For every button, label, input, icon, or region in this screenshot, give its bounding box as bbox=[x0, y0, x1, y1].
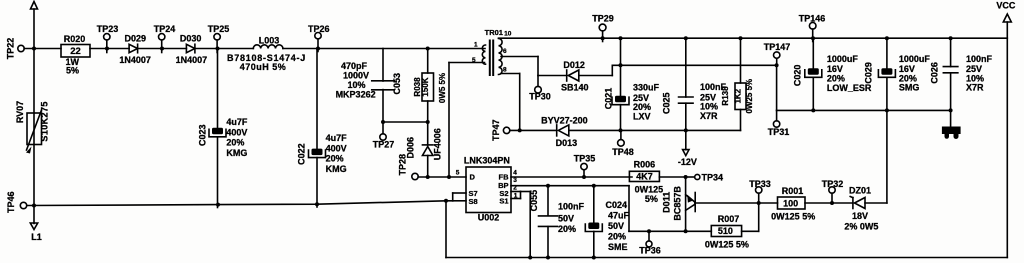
svg-text:16V: 16V bbox=[899, 64, 915, 74]
svg-text:1N4007: 1N4007 bbox=[176, 55, 208, 65]
svg-text:10: 10 bbox=[504, 31, 512, 38]
svg-text:400V: 400V bbox=[226, 127, 247, 137]
wire: DZ01 up to gnd rail bbox=[865, 110, 887, 203]
svg-text:TP146: TP146 bbox=[799, 13, 826, 23]
svg-text:S8: S8 bbox=[469, 197, 478, 206]
wire: R007 to TP33 node bbox=[742, 203, 759, 231]
svg-text:20%: 20% bbox=[827, 73, 845, 83]
svg-text:D011: D011 bbox=[662, 192, 672, 213]
svg-text:TP147: TP147 bbox=[764, 42, 791, 52]
wire: R001 to TP32 bbox=[805, 201, 834, 205]
svg-text:22: 22 bbox=[70, 46, 81, 57]
svg-text:L003: L003 bbox=[259, 36, 280, 46]
diode D030 1N4007 bbox=[176, 34, 208, 66]
svg-text:1: 1 bbox=[474, 41, 478, 48]
svg-text:4u7F: 4u7F bbox=[226, 117, 248, 127]
test point TP24 bbox=[154, 24, 176, 53]
svg-text:KMG: KMG bbox=[326, 164, 347, 174]
ground symbol bbox=[942, 110, 961, 139]
pin 4 label bbox=[513, 170, 517, 177]
svg-text:C053: C053 bbox=[392, 73, 402, 95]
test point TP32 bbox=[822, 179, 844, 203]
svg-text:S1: S1 bbox=[499, 197, 508, 206]
svg-text:C022: C022 bbox=[297, 143, 307, 165]
svg-text:BYV27-200: BYV27-200 bbox=[541, 116, 588, 126]
wire: pin6 tap to D012 bbox=[538, 75, 567, 77]
test point TP30 bbox=[529, 76, 551, 102]
svg-text:TP36: TP36 bbox=[639, 246, 661, 256]
wire: collector-emitter vertical bbox=[684, 177, 688, 233]
transformer TR01 secondary winding bbox=[499, 31, 512, 75]
pin 1 label bbox=[514, 193, 518, 200]
svg-text:50V: 50V bbox=[608, 221, 624, 231]
svg-text:100: 100 bbox=[783, 198, 798, 208]
zener diode DZ01 18V bbox=[844, 185, 878, 231]
svg-text:TP23: TP23 bbox=[97, 24, 119, 34]
svg-text:DZ01: DZ01 bbox=[849, 185, 871, 195]
capacitor C023 4u7F bbox=[197, 117, 248, 208]
capacitor C020 1000uF LOW_ESR bbox=[793, 38, 872, 110]
wire: C053 to TP27 and to R038 chain bbox=[381, 90, 428, 134]
svg-text:470pF: 470pF bbox=[341, 61, 368, 71]
svg-text:D029: D029 bbox=[125, 34, 147, 44]
test point TP47 bbox=[491, 119, 510, 141]
wire: drain node to IC pin D bbox=[418, 175, 466, 179]
svg-text:150K: 150K bbox=[421, 77, 430, 96]
svg-text:TP47: TP47 bbox=[491, 119, 501, 141]
wire: TP25 node down to C023 bbox=[217, 49, 219, 129]
svg-text:VCC: VCC bbox=[996, 0, 1016, 10]
svg-text:UF4006: UF4006 bbox=[432, 128, 442, 160]
svg-text:18V: 18V bbox=[852, 211, 868, 221]
svg-text:5: 5 bbox=[456, 170, 460, 177]
svg-text:SB140: SB140 bbox=[561, 82, 589, 92]
wire: BP pin to C055 and C024 bbox=[511, 184, 629, 188]
resistor R006 4K7 bbox=[629, 160, 663, 204]
op-amp U002 LNK304PN body bbox=[464, 156, 511, 223]
svg-text:20%: 20% bbox=[608, 231, 626, 241]
svg-text:TP27: TP27 bbox=[373, 140, 395, 150]
svg-text:5: 5 bbox=[472, 57, 476, 64]
wire: D006 to drain node bbox=[427, 156, 429, 178]
svg-text:X7R: X7R bbox=[700, 111, 718, 121]
test point TP27 bbox=[373, 134, 395, 150]
svg-text:C025: C025 bbox=[662, 92, 672, 114]
resistor R138 1K2 bbox=[721, 38, 754, 130]
wire: input stub from TP22 to junction bbox=[24, 48, 61, 50]
svg-text:TP22: TP22 bbox=[6, 38, 16, 60]
wire: FB pin to R006 bbox=[511, 175, 632, 179]
capacitor C022 4u7F bbox=[297, 133, 348, 207]
capacitor C026 100nF X7R bbox=[930, 38, 993, 110]
resistor R007 510 bbox=[705, 214, 749, 250]
capacitor C021 330uF LXV bbox=[604, 38, 660, 130]
svg-text:3: 3 bbox=[513, 177, 517, 184]
svg-text:4K7: 4K7 bbox=[636, 171, 653, 181]
svg-text:20%: 20% bbox=[326, 154, 344, 164]
svg-text:MKP3262: MKP3262 bbox=[336, 90, 376, 100]
svg-text:TP26: TP26 bbox=[308, 24, 330, 34]
svg-text:TR01: TR01 bbox=[485, 28, 503, 37]
wire: D029 to D030 bbox=[139, 47, 186, 51]
capacitor C053 470pF MKP bbox=[336, 61, 402, 100]
diode D006 UF4006 bbox=[406, 128, 443, 160]
pin 2 label bbox=[513, 184, 517, 191]
test point TP35 bbox=[574, 154, 596, 177]
net flag VCC bbox=[996, 0, 1016, 22]
svg-text:8: 8 bbox=[503, 66, 507, 73]
svg-text:510: 510 bbox=[718, 226, 733, 236]
capacitor C029 1000uF SMG bbox=[864, 38, 931, 110]
test point TP48 bbox=[612, 130, 634, 157]
svg-text:0W125 5%: 0W125 5% bbox=[705, 240, 749, 250]
inductor L003 bbox=[227, 36, 306, 72]
resistor R001 100 bbox=[759, 186, 816, 221]
svg-text:1K2: 1K2 bbox=[734, 88, 743, 103]
svg-text:U002: U002 bbox=[478, 212, 500, 222]
pin 5 label bbox=[456, 170, 460, 177]
svg-text:-12V: -12V bbox=[678, 157, 697, 167]
test point TP31 bbox=[768, 110, 790, 137]
wire: R020 to D029 bbox=[90, 47, 129, 51]
svg-text:TP35: TP35 bbox=[574, 154, 596, 164]
svg-text:TP28: TP28 bbox=[398, 154, 408, 176]
wire: bottom return rail bbox=[446, 201, 1007, 260]
wire: R038 to D006 bbox=[426, 101, 430, 145]
net flag -12V bbox=[678, 130, 697, 167]
wire: IC source pins S7 S8 bracket bbox=[453, 193, 466, 201]
svg-text:D012: D012 bbox=[563, 60, 585, 70]
svg-text:1000uF: 1000uF bbox=[899, 54, 931, 64]
test point TP26 bbox=[308, 24, 330, 52]
wire: emitter node wire bbox=[629, 186, 711, 234]
svg-text:4: 4 bbox=[513, 170, 517, 177]
test point TP33 bbox=[749, 179, 771, 203]
resistor R020 bbox=[61, 34, 90, 75]
capacitor C055 100nF bbox=[529, 186, 585, 258]
wire: secondary pin10 to VCC rail bbox=[499, 36, 1008, 40]
wire: secondary gnd rail bbox=[777, 108, 953, 112]
svg-text:5%: 5% bbox=[66, 65, 79, 75]
svg-text:100nF: 100nF bbox=[558, 202, 585, 212]
svg-text:R006: R006 bbox=[634, 160, 656, 170]
wire: secondary pin 6 tap bbox=[501, 57, 538, 76]
test point TP36 bbox=[639, 231, 661, 255]
capacitor C025 100nF X7R bbox=[662, 38, 727, 130]
svg-text:TP34: TP34 bbox=[702, 173, 724, 183]
svg-text:4u7F: 4u7F bbox=[326, 133, 348, 143]
wire: primary bottom bus bbox=[27, 199, 453, 207]
resistor R038 150K bbox=[413, 49, 447, 104]
svg-text:TP30: TP30 bbox=[529, 92, 551, 102]
transistor Q D011 BC857B bbox=[662, 186, 696, 221]
svg-text:L1: L1 bbox=[31, 232, 42, 242]
test point TP34 bbox=[686, 173, 723, 183]
svg-text:TP46: TP46 bbox=[6, 192, 16, 214]
svg-text:C029: C029 bbox=[864, 62, 874, 84]
svg-text:TP24: TP24 bbox=[154, 24, 176, 34]
transformer TR01 core bbox=[485, 28, 503, 76]
svg-text:LXV: LXV bbox=[633, 111, 651, 121]
svg-text:R138: R138 bbox=[721, 86, 730, 106]
svg-text:20%: 20% bbox=[558, 224, 576, 234]
svg-text:5%: 5% bbox=[645, 194, 658, 204]
wire: D030 to L003 bbox=[196, 47, 253, 51]
test point TP25 bbox=[208, 24, 230, 53]
wire: TP26 node down to C022 bbox=[316, 49, 318, 149]
svg-text:SME: SME bbox=[608, 242, 628, 252]
svg-text:0W5 5%: 0W5 5% bbox=[438, 73, 447, 103]
svg-text:C026: C026 bbox=[930, 62, 940, 84]
svg-text:16V: 16V bbox=[827, 64, 843, 74]
test point TP146 bbox=[799, 13, 826, 41]
wire: top wire down to C053 bbox=[382, 49, 384, 82]
svg-text:0W25 5%: 0W25 5% bbox=[745, 79, 754, 114]
varistor RV07 bbox=[15, 101, 49, 154]
svg-text:TP29: TP29 bbox=[592, 13, 614, 23]
svg-text:LNK304PN: LNK304PN bbox=[464, 156, 510, 166]
svg-text:C020: C020 bbox=[793, 65, 803, 87]
wire: S1 S2 pins to return rail bbox=[511, 192, 530, 258]
test point TP46 bbox=[6, 192, 27, 214]
diode D012 SB140 bbox=[561, 60, 589, 92]
svg-text:50V: 50V bbox=[558, 214, 574, 224]
svg-text:X7R: X7R bbox=[966, 83, 984, 93]
svg-text:TP33: TP33 bbox=[749, 179, 771, 189]
svg-text:RV07: RV07 bbox=[15, 101, 25, 123]
wire: vertical input line L bbox=[32, 9, 36, 224]
svg-text:C023: C023 bbox=[197, 125, 207, 147]
svg-text:D030: D030 bbox=[180, 34, 202, 44]
svg-text:C024: C024 bbox=[606, 200, 628, 210]
pin 3 label bbox=[513, 177, 517, 184]
svg-text:R038: R038 bbox=[413, 77, 422, 97]
svg-text:470uH 5%: 470uH 5% bbox=[240, 62, 287, 72]
wire: secondary pin 8 tap bbox=[501, 74, 522, 133]
svg-text:TP32: TP32 bbox=[822, 179, 844, 189]
wire: TP147 node down to gnd rail bbox=[776, 65, 778, 110]
node arrow: line input top bbox=[31, 2, 38, 10]
svg-text:BC857B: BC857B bbox=[672, 186, 682, 221]
svg-text:R020: R020 bbox=[64, 34, 86, 44]
svg-text:400V: 400V bbox=[326, 143, 347, 153]
wire: -12V rail bbox=[569, 128, 741, 132]
svg-text:C021: C021 bbox=[604, 88, 614, 110]
wire: right edge VCC vertical bbox=[1006, 22, 1008, 258]
svg-text:0W125 5%: 0W125 5% bbox=[771, 211, 815, 221]
test point TP22 bbox=[6, 38, 25, 60]
svg-text:TP31: TP31 bbox=[768, 127, 790, 137]
svg-text:2% 0W5: 2% 0W5 bbox=[844, 222, 878, 232]
svg-text:D: D bbox=[470, 173, 476, 182]
wire: transformer pin 5 to drain node bbox=[449, 63, 485, 178]
test point TP28 bbox=[398, 154, 419, 180]
svg-text:SMG: SMG bbox=[899, 83, 920, 93]
svg-text:KMG: KMG bbox=[226, 148, 247, 158]
wire: base to TP33 node bbox=[695, 201, 761, 205]
svg-text:1N4007: 1N4007 bbox=[119, 55, 151, 65]
svg-text:D013: D013 bbox=[556, 138, 578, 148]
wire: TP32 to DZ01 bbox=[832, 202, 853, 204]
svg-text:1000uF: 1000uF bbox=[827, 54, 859, 64]
test point TP29 bbox=[592, 13, 614, 41]
svg-text:100nF: 100nF bbox=[966, 54, 993, 64]
wire: L003 to transformer pin 1 bbox=[283, 47, 485, 51]
wire: R006 to -12V node bbox=[659, 175, 687, 179]
svg-text:TP48: TP48 bbox=[612, 147, 634, 157]
capacitor C024 47uF SME bbox=[585, 186, 629, 258]
svg-text:6: 6 bbox=[503, 48, 507, 55]
diode D013 BYV27-200 bbox=[541, 116, 588, 149]
svg-text:TP25: TP25 bbox=[208, 24, 230, 34]
test point TP147 bbox=[764, 42, 791, 65]
svg-text:R007: R007 bbox=[718, 214, 740, 224]
transformer TR01 primary winding bbox=[472, 41, 486, 64]
svg-text:LOW_ESR: LOW_ESR bbox=[827, 83, 872, 93]
wire: TP47 to D013 bbox=[510, 129, 557, 131]
svg-text:330uF: 330uF bbox=[633, 83, 660, 93]
wire: D012 to VCC net step bbox=[579, 63, 779, 75]
svg-text:R001: R001 bbox=[782, 186, 804, 196]
svg-text:10%: 10% bbox=[347, 80, 365, 90]
arrow L1 (line output down) bbox=[30, 223, 41, 242]
svg-text:20%: 20% bbox=[226, 138, 244, 148]
svg-text:S10K275: S10K275 bbox=[40, 101, 50, 141]
svg-text:25V: 25V bbox=[966, 64, 982, 74]
test point TP23 bbox=[97, 24, 119, 53]
diode D029 1N4007 bbox=[119, 34, 151, 66]
svg-text:47uF: 47uF bbox=[608, 211, 630, 221]
